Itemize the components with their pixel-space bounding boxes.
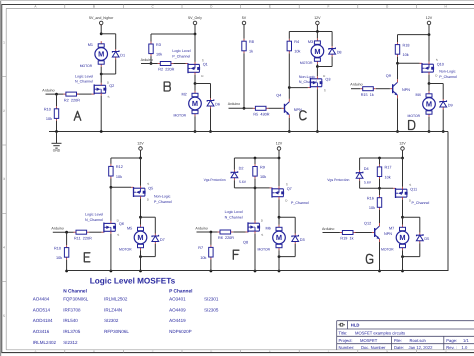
wire R10 bottom wire [56,121,58,132]
svg-text:Arduino: Arduino [51,227,63,231]
transistor Q4 (NPN) [276,93,302,118]
resistor R7 (10k) [198,245,213,260]
label Vgs Protection (G) [327,178,349,182]
junction node A-gnd [100,130,103,133]
svg-text:10k: 10k [200,256,206,260]
svg-text:AO4419: AO4419 [169,318,186,323]
svg-text:Project:: Project: [339,338,353,343]
svg-text:R10: R10 [44,108,51,112]
wire 12V feed D [428,25,430,35]
label Logic Level (A) line2 [75,80,93,84]
wire branch to D6 [195,83,211,85]
svg-text:R11 220R: R11 220R [74,236,92,240]
svg-text:Logic Level: Logic Level [225,210,243,214]
wire ground rail right riser [447,132,449,272]
svg-text:SI2301: SI2301 [204,296,219,301]
wire D7 bottom drop [154,244,156,257]
junction node B-drain [194,82,197,85]
wire Arduino wire D [351,88,360,90]
svg-text:Logic Level: Logic Level [172,49,190,53]
junction node M6-gnd [278,270,281,273]
text heading Logic Level MOSFETs [90,277,176,286]
label Logic Level (E) line2 [85,218,103,222]
label Logic Level (B) line1 [172,49,190,53]
junction node E-drain [139,216,142,219]
svg-text:M2: M2 [182,92,187,96]
wire R9 top wire [254,158,256,164]
label Logic Level (A) line1 [75,74,93,78]
junction node G-R17top [378,157,381,160]
junction node B-top [194,33,197,36]
wire D7 to motor node [141,256,156,258]
junction node Q12-gnd [378,270,381,273]
junction node G-mbot [401,255,404,258]
junction node A-drain [100,73,103,76]
svg-text:G: G [386,350,388,353]
svg-text:Number:: Number: [339,345,355,350]
svg-text:D8: D8 [337,51,342,55]
transistor Q7 (P-MOSFET) [270,183,292,203]
wire gate wire Q8 [233,231,245,233]
svg-text:M: M [98,50,104,59]
wire D8 to motor node [317,66,332,68]
diode D3 (flyback, circuit F) [292,234,305,245]
wire D9 top drop [442,84,444,100]
power connector 5V_and_higher (circuit A) [89,16,114,26]
junction node D-gate [396,62,399,65]
wire M7 bottom wire [402,250,404,256]
net label Arduino (G) [322,227,334,231]
svg-text:R18: R18 [403,43,410,47]
svg-text:10k: 10k [46,117,52,121]
wire gate wire Q3 [289,87,308,89]
svg-text:10k: 10k [156,52,162,56]
diode D5 (flyback, circuit G) [416,233,429,244]
svg-text:P_Channel: P_Channel [439,75,457,79]
svg-text:S: S [202,58,204,62]
svg-text:R6 220R: R6 220R [218,236,234,240]
svg-text:D1: D1 [120,54,125,58]
resistor R10 (10k) [44,106,59,121]
svg-text:D2: D2 [239,167,244,171]
svg-text:Q9: Q9 [386,74,391,78]
wire zener D2 top drop [233,158,235,170]
diode D6 (flyback, circuit B) [207,98,220,109]
svg-text:4: 4 [3,245,5,249]
svg-text:Arduino: Arduino [228,102,240,106]
label Non-Logic (E) line1 [154,195,171,199]
net label Arduino (C) [228,102,240,106]
wire Q11 source wire [402,158,404,187]
svg-text:R10: R10 [54,246,61,250]
svg-text:NPN: NPN [402,88,410,92]
text Page cell [446,338,469,343]
wire Q5 source wire [140,158,142,186]
wire Q1 drain wire [194,75,196,84]
transistor Q5 (P-MOSFET) [131,182,153,202]
text Date cell [394,345,433,350]
wire D9 to ground [442,110,444,132]
svg-text:M: M [137,233,143,242]
svg-text:12V: 12V [137,141,144,145]
svg-text:NDP6020P: NDP6020P [169,329,192,334]
power connector 12V (circuit E) [137,141,144,151]
wire R10e bottom wire [66,260,68,271]
junction node M5-gnd [139,270,142,273]
svg-text:12V: 12V [426,16,433,20]
power connector 5V_Only (circuit B) [188,16,202,26]
svg-text:S: S [286,183,288,187]
power connector 12V (circuit D) [426,16,433,26]
wire Q10 drain wire [428,75,430,84]
svg-text:10k: 10k [369,206,375,210]
junction node E-top [139,157,142,160]
power connector 5V (circuit C) [242,16,247,26]
junction node F-R9top [254,157,257,160]
junction node Q3-gnd [316,130,319,133]
wire D1 bottom drop [115,60,117,75]
resistor R2 (220R) [63,92,80,102]
resistor R9 (10k) [253,164,266,179]
text Rev cell [446,345,468,350]
junction node E-gate-pulldown [65,231,68,234]
svg-text:C: C [152,350,154,353]
svg-text:R2 220R: R2 220R [158,68,174,72]
resistor R16 (10k) [367,195,382,210]
label Logic Level (E) line1 [85,213,103,217]
wire D5 bottom drop [419,243,421,256]
transistor Q6 (N-MOSFET) [101,219,124,238]
junction node M4-gnd [428,130,431,133]
svg-text:Non-Logic: Non-Logic [439,70,456,74]
junction node Q8-gnd [254,270,257,273]
junction node F-drain [278,216,281,219]
svg-text:2: 2 [3,109,5,113]
svg-text:MOTOR: MOTOR [300,61,313,65]
wire Q7 drain wire [278,199,280,217]
wire zener D2 bottom drop [233,180,235,188]
power connector 12V (circuit F) [276,141,283,151]
wire D3 to motor node [279,256,295,258]
svg-text:S: S [147,182,149,186]
text MOSFET list row 3 [33,318,186,323]
wire D5 top drop [419,217,421,233]
motor M2 [174,91,202,118]
junction node C-gate [288,86,291,89]
wire R16 bottom wire [379,210,381,223]
svg-text:Q12: Q12 [364,221,371,225]
svg-text:Logic Level MOSFETs: Logic Level MOSFETs [90,277,176,286]
wire ground rail (top row) [49,131,448,133]
svg-text:M4: M4 [416,93,421,97]
svg-text:MOSFET: MOSFET [360,338,378,343]
junction node G-top [401,157,404,160]
svg-text:S: S [261,233,263,237]
svg-text:MOTOR: MOTOR [80,64,93,68]
wire branch to D9 [429,83,443,85]
svg-text:IRL3705: IRL3705 [63,329,81,334]
wire R7 bottom wire [210,260,212,272]
svg-text:P_Channel: P_Channel [412,201,430,205]
svg-text:Vgs Protection: Vgs Protection [204,178,226,182]
svg-text:SI2302: SI2302 [104,318,119,323]
svg-text:R7: R7 [198,246,203,250]
wire Q9 collector wire [397,63,399,79]
svg-text:File:: File: [394,338,402,343]
wire D7 top drop [154,217,156,233]
transistor Q2 (N-MOSFET) [92,81,115,100]
resistor R12 (10k) [109,164,123,179]
label P_Channel (F) [291,201,309,205]
svg-text:Arduino: Arduino [350,83,362,87]
wire M5 top wire [140,217,142,225]
net label Arduino (D) [350,83,362,87]
svg-text:SI2305: SI2305 [204,307,219,312]
svg-text:P Channel: P Channel [169,289,192,295]
svg-text:10k: 10k [294,50,300,54]
svg-text:MOTOR: MOTOR [381,247,394,251]
svg-text:R9: R9 [260,165,265,169]
wire M3 top wire [316,32,318,39]
junction node D-drain [428,82,431,85]
svg-text:P_Channel: P_Channel [154,200,172,204]
svg-text:Arduino: Arduino [322,227,334,231]
svg-text:Q11: Q11 [410,188,417,192]
resistor R18 (10k) [395,42,409,57]
svg-text:1k: 1k [249,50,253,54]
circuit label D [409,121,415,130]
wire 5V feed B [194,25,196,35]
svg-text:5: 5 [3,314,5,318]
svg-text:A: A [35,350,37,353]
wire E top rail [111,157,141,159]
svg-text:N_Channel: N_Channel [75,80,93,84]
svg-text:FQP30N06L: FQP30N06L [63,296,89,301]
svg-text:3: 3 [3,177,5,181]
wire D6 top drop [210,84,212,99]
junction node M2-gnd [194,130,197,133]
text Number cell [339,345,387,350]
motor M5 [119,225,147,252]
svg-text:M: M [192,99,198,108]
title block logo [339,323,346,326]
svg-text:Q8: Q8 [243,241,248,245]
text File cell [394,338,427,343]
junction node Q6-gnd [110,270,113,273]
svg-text:IRLML2502: IRLML2502 [104,296,128,301]
svg-text:5.6V: 5.6V [364,180,372,184]
circuit label A [74,111,81,120]
junction node R10e-gnd [65,270,68,273]
svg-text:Non-Logic: Non-Logic [154,195,171,199]
wire D8 top drop [331,32,333,47]
svg-text:GND: GND [53,148,61,152]
svg-text:P_Channel: P_Channel [172,54,190,58]
svg-text:D7: D7 [160,238,165,242]
wire ground rail (bottom row) [67,270,448,272]
svg-text:5.6V: 5.6V [239,180,247,184]
wire branch to D1 top [101,33,116,35]
wire gate wire Q2 [76,93,91,95]
text MOSFET list row 2 [33,307,219,312]
wire D6 to ground [210,109,212,132]
wire M4 to ground [428,117,430,132]
wire Q8 drain wire [254,188,256,221]
wire Arduino wire F [197,231,218,233]
svg-text:M7: M7 [389,226,394,230]
svg-text:MOTOR: MOTOR [119,247,132,251]
label Logic Level (F) line2 [225,216,243,220]
wire M3 bottom wire [316,64,318,67]
wire 5V feed A [100,25,102,34]
wire M2 to ground [194,116,196,131]
junction node gnd-left [55,130,58,133]
diode D9 (flyback, circuit D) [440,99,453,110]
wire G top rail [360,157,403,159]
svg-text:D4: D4 [364,167,369,171]
svg-text:S: S [436,58,438,62]
diode D7 (flyback, circuit E) [152,234,165,245]
wire Arduino wire G [323,232,340,234]
text company HLD [351,323,360,328]
wire R18 top wire [397,35,399,43]
svg-text:Q2: Q2 [109,84,114,88]
svg-text:Arduino: Arduino [141,58,153,62]
wire Q5 drain wire [140,199,142,218]
text Project cell [339,338,378,343]
junction node F-gate [254,187,257,190]
svg-text:S: S [117,233,119,237]
power connector 12V (circuit C) [314,16,321,26]
diode D1 (flyback, circuit A) [112,49,125,60]
circuit label G [366,254,372,263]
wire R9 bottom wire [254,179,256,188]
svg-text:R2 220R: R2 220R [64,98,80,102]
svg-text:R16: R16 [367,197,374,201]
wire G motor to ground [402,257,404,271]
transistor Q12 (NPN) [364,221,392,242]
resistor R10 (10k) [54,245,69,260]
title block frame [337,321,474,350]
text MOSFET list row 1 [33,296,219,301]
junction node G-gate [378,187,381,190]
svg-text:D: D [210,350,212,353]
svg-text:10k: 10k [403,53,409,57]
svg-text:R19 1k: R19 1k [340,237,353,241]
svg-text:10k: 10k [260,175,266,179]
svg-text:N Channel: N Channel [63,289,87,295]
wire Q4 emitter to ground [288,118,290,132]
svg-text:R3: R3 [156,43,161,47]
svg-text:R12: R12 [116,165,123,169]
circuit label C [300,111,306,120]
junction node E-gate [110,186,113,189]
svg-text:IRL540: IRL540 [63,318,78,323]
label Non-Logic (C) line1 [299,75,316,79]
svg-text:Logic Level: Logic Level [85,213,103,217]
junction node R7-gnd [210,270,213,273]
svg-text:Page:: Page: [446,338,457,343]
motor M3 [300,38,324,65]
wire 12V feed E [140,150,142,158]
transistor Q9 (NPN) [386,74,410,98]
svg-text:R5 430R: R5 430R [253,113,269,117]
wire 12V feed F [278,150,280,158]
svg-text:S: S [324,89,326,93]
wire R4 top wire [288,32,290,39]
svg-text:12V: 12V [276,141,283,145]
wire D3 bottom drop [294,244,296,257]
svg-text:IRF3708: IRF3708 [63,307,81,312]
svg-text:Arduino: Arduino [195,227,207,231]
svg-text:Rev. :: Rev. : [446,345,457,350]
wire branch to D7 [141,216,156,218]
wire Q11 drain wire [402,200,404,218]
circuit label B [164,82,170,91]
junction node C-base-junction [243,107,246,110]
svg-text:12V: 12V [314,16,321,20]
svg-text:Doc. Number: Doc. Number [361,345,386,350]
wire gate wire Q6 [89,231,101,233]
motor M7 [381,225,409,252]
wire R10 top wire [56,94,58,106]
junction node D-top [428,33,431,36]
svg-text:M: M [276,233,282,242]
svg-text:D9: D9 [448,104,453,108]
wire Q10 source wire [428,35,430,62]
junction node F-top [278,157,281,160]
svg-text:D5: D5 [424,237,429,241]
svg-text:D6: D6 [215,103,220,107]
wire Q3 source to ground [316,89,318,131]
wire 12V feed G [402,150,404,158]
svg-text:AO3416: AO3416 [33,329,50,334]
svg-text:M: M [399,233,405,242]
wire R17 top wire [379,158,381,164]
junction node A-top [100,32,103,35]
wire branch to D5 [403,216,420,218]
resistor R19 (1k) [340,231,356,241]
text header N Channel [63,289,87,295]
svg-text:Q5: Q5 [148,187,153,191]
resistor R8 (1k) [242,39,254,54]
wire zener D4 top drop [359,158,361,170]
resistor R6 (220R) [218,230,235,240]
junction node D9-gnd [442,130,445,133]
wire M4 top wire [428,84,430,92]
wire drain wire Q3 [316,67,318,77]
svg-text:HLD: HLD [351,323,360,328]
junction node M7-gnd [401,270,404,273]
transistor Q3 (N-MOSFET) [308,74,331,93]
wire gate wire Q5 [111,186,131,188]
svg-text:Logic Level: Logic Level [75,74,93,78]
diode D8 (flyback, circuit C) [329,46,342,57]
resistor R11 (220R) [74,230,93,240]
svg-text:IRLZ44N: IRLZ44N [104,307,122,312]
svg-text:AO3401: AO3401 [169,296,186,301]
label Non-Logic (D) line1 [439,70,456,74]
svg-text:Vgs Protection: Vgs Protection [327,178,349,182]
svg-text:B: B [93,350,95,353]
text MOSFET list row 5 [33,340,78,345]
svg-text:Arduino: Arduino [42,89,54,93]
transistor Q8 (N-MOSFET) [243,218,264,244]
svg-text:IRLML2402: IRLML2402 [33,340,57,345]
svg-text:R15 1k: R15 1k [361,93,374,97]
svg-text:M: M [426,100,432,109]
junction node F-gate-pulldown [210,231,213,234]
